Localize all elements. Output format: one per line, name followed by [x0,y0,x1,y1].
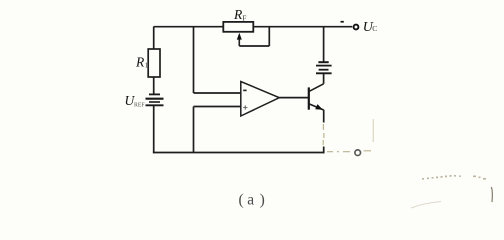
svg-text:F: F [242,14,246,23]
svg-text:R: R [135,54,145,69]
svg-text:REF: REF [134,103,145,109]
svg-text:(: ( [239,191,244,208]
svg-text:1: 1 [145,62,149,70]
svg-text:C: C [372,24,377,33]
svg-text:): ) [260,191,265,208]
svg-text:a: a [247,191,254,208]
